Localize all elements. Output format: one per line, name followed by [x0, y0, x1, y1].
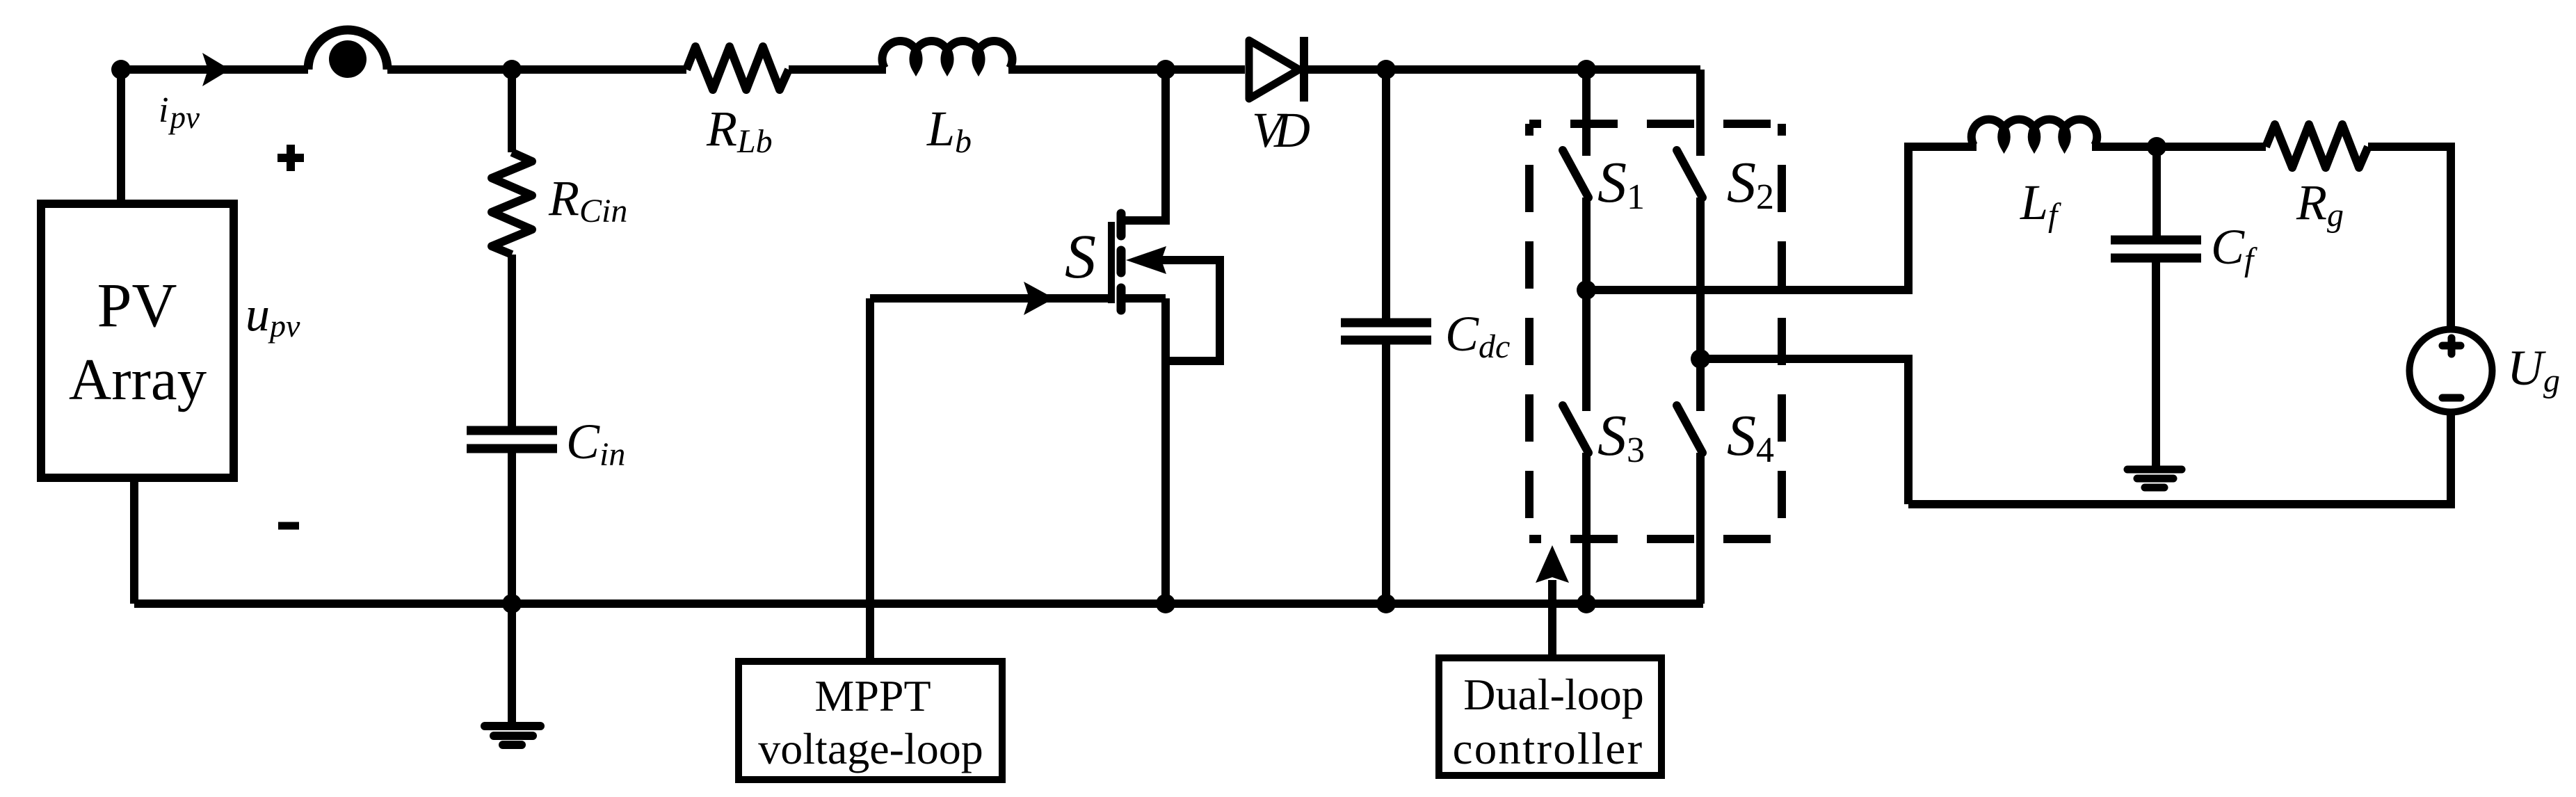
- resistor RLb: [686, 47, 789, 90]
- wire bottom right rail: [1908, 500, 2455, 508]
- wire top rail left: [121, 65, 308, 74]
- node PV+ junction: [111, 60, 131, 79]
- switch S1 top stub: [1582, 70, 1591, 156]
- wire source vertical: [1161, 298, 1170, 604]
- svg-text:RLb: RLb: [706, 101, 773, 160]
- source Ug circle: [2410, 330, 2493, 412]
- svg-text:S1: S1: [1597, 150, 1645, 217]
- wire gate drive: [870, 294, 1108, 303]
- wire bridge right leg drop: [1696, 70, 1705, 156]
- arrow gate drive: [1024, 282, 1054, 315]
- svg-text:S3: S3: [1597, 403, 1645, 470]
- svg-text:Lf: Lf: [2020, 175, 2061, 234]
- arrow body connection: [1126, 246, 1166, 274]
- node Cf top: [2147, 137, 2166, 156]
- ground symbol right: [2127, 469, 2182, 488]
- MPPT controller box: [739, 661, 1002, 780]
- node bridge left midpoint: [1577, 280, 1596, 300]
- wire S4 to bus: [1696, 453, 1705, 604]
- label plus upv: [277, 145, 304, 171]
- wire Ug to bottom rail: [2447, 412, 2455, 504]
- capacitor Cin: [467, 430, 557, 449]
- svg-text:MPPT: MPPT: [814, 671, 931, 720]
- svg-text:controller: controller: [1453, 724, 1644, 774]
- MPPT box label: [758, 671, 983, 773]
- svg-text:Dual-loop: Dual-loop: [1463, 670, 1644, 719]
- svg-text:upv: upv: [245, 288, 300, 344]
- ground symbol left: [485, 726, 540, 745]
- svg-text:Lb: Lb: [926, 101, 972, 160]
- wire Cf upper lead: [2152, 147, 2161, 240]
- wire Cin branch upper lead: [508, 70, 516, 152]
- PV array box: [41, 204, 234, 478]
- wire PV positive lead: [117, 70, 125, 204]
- wire MPPT control line: [866, 298, 874, 661]
- arrow ipv current direction: [202, 53, 230, 86]
- wire sensor to Cin node: [387, 65, 686, 74]
- Dual-loop box label: [1453, 670, 1644, 774]
- svg-text:Cin: Cin: [566, 414, 625, 473]
- switch S3 top stub: [1582, 290, 1591, 411]
- inductor Lf: [1972, 120, 2098, 145]
- wire bridge lower output: [1700, 359, 1908, 504]
- node bottom bus Cin: [502, 594, 522, 613]
- node bridge left leg top: [1577, 60, 1596, 79]
- switch S4 blade: [1677, 405, 1702, 453]
- wire diode to bridge: [1307, 65, 1700, 74]
- svg-text:Cf: Cf: [2211, 219, 2257, 278]
- label minus upv: [278, 522, 299, 530]
- PV array label: [69, 271, 207, 412]
- node bridge right midpoint: [1691, 349, 1710, 369]
- dashed controller boundary box: [1529, 124, 1782, 539]
- resistor RCin: [492, 152, 532, 255]
- switch S3 blade: [1563, 405, 1588, 453]
- arrow dual-loop control: [1536, 545, 1569, 583]
- wire S3 to bus: [1582, 453, 1591, 604]
- diode VD cathode bar: [1300, 37, 1308, 102]
- Dual-loop controller box: [1439, 658, 1661, 775]
- wire Lb to diode: [1008, 65, 1245, 74]
- svg-text:RCin: RCin: [548, 170, 627, 230]
- wire Rg to corner: [2368, 147, 2451, 330]
- svg-text:S: S: [1065, 223, 1096, 291]
- node bottom bus bridge: [1577, 594, 1596, 613]
- wire Cdc upper lead: [1382, 70, 1390, 323]
- wire source horizontal: [1121, 294, 1166, 303]
- wire bottom bus: [134, 599, 1703, 608]
- switch S2 blade: [1677, 150, 1702, 198]
- wire drain vertical: [1161, 70, 1170, 220]
- node boost switch top: [1156, 60, 1175, 79]
- label plus Ug: [2442, 338, 2461, 354]
- wire S1 to midpoint: [1582, 198, 1591, 290]
- node Cin branch top: [502, 60, 522, 79]
- svg-text:Rg: Rg: [2296, 175, 2344, 234]
- wire PV negative lead: [130, 478, 138, 604]
- node bottom bus source: [1156, 594, 1175, 613]
- transistor S channel segments: [1117, 214, 1126, 310]
- node Cdc top: [1376, 60, 1396, 79]
- capacitor Cf: [2111, 240, 2201, 258]
- wire dual-loop control shaft: [1548, 580, 1556, 658]
- svg-text:Array: Array: [69, 347, 207, 412]
- svg-text:PV: PV: [97, 271, 177, 340]
- wire bridge upper output: [1586, 147, 1977, 290]
- label minus Ug: [2442, 394, 2461, 402]
- node bottom bus Cdc: [1376, 594, 1396, 613]
- current sensor dot: [329, 40, 367, 78]
- inductor Lb: [883, 41, 1013, 68]
- wire RCin to Cin: [508, 255, 516, 430]
- wire ground stem: [508, 604, 516, 726]
- resistor Rg: [2266, 124, 2368, 168]
- wire drain horizontal: [1121, 216, 1170, 225]
- svg-text:VD: VD: [1252, 102, 1310, 158]
- switch S1 blade: [1563, 150, 1588, 198]
- wire Lf to Cf node: [2092, 143, 2266, 151]
- wire body loop: [1161, 260, 1220, 361]
- wire S2 to midpoint: [1696, 198, 1705, 359]
- svg-text:Cdc: Cdc: [1445, 306, 1510, 365]
- wire Cdc lower lead: [1382, 340, 1390, 604]
- svg-text:voltage-loop: voltage-loop: [758, 724, 983, 773]
- transistor S gate bar: [1108, 222, 1115, 303]
- wire Cf lower lead: [2152, 258, 2160, 469]
- wire Cin to bottom bus: [508, 449, 516, 604]
- capacitor Cdc: [1341, 323, 1431, 340]
- svg-text:Ug: Ug: [2507, 340, 2560, 399]
- svg-text:S2: S2: [1727, 150, 1774, 217]
- switch S4 top stub: [1696, 359, 1705, 411]
- wire RLb to Lb: [789, 65, 886, 74]
- diode VD triangle: [1249, 40, 1299, 99]
- current sensor arc: [308, 30, 387, 70]
- svg-text:ipv: ipv: [159, 90, 200, 135]
- svg-text:S4: S4: [1727, 403, 1774, 470]
